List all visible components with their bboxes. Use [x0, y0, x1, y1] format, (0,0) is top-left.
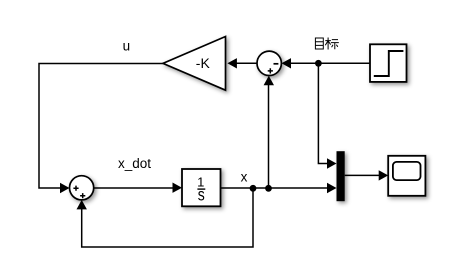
label 目标 (drawn glyphs)	[315, 38, 338, 50]
wire: target down to mux upper input	[318, 63, 328, 163]
node J1 (x branch down)	[250, 185, 257, 192]
gain block -K (triangle, flipped left)	[163, 37, 226, 91]
wire: mux output to scope	[345, 174, 380, 176]
node arrow into lower sum left	[60, 183, 70, 193]
wire: lower sum to integrator	[94, 187, 174, 189]
node J3 (target branch)	[315, 60, 322, 67]
arrow into mux upper input	[327, 158, 337, 168]
wire: x feedback down-left to lower sum bottom	[82, 188, 253, 247]
node J2 (x branch up)	[265, 185, 272, 192]
upper sum block (signs + -)	[257, 51, 281, 75]
svg-text:s: s	[198, 186, 205, 205]
svg-text:-K: -K	[196, 55, 211, 71]
arrow into scope	[379, 170, 389, 180]
scope block	[388, 156, 425, 196]
arrow into gain right edge	[227, 58, 237, 68]
svg-text:u: u	[123, 38, 131, 53]
wire: step output left to upper sum	[290, 62, 370, 64]
step source block	[370, 44, 407, 82]
wire: x up to upper sum	[268, 84, 270, 188]
arrow into mux lower input	[327, 183, 337, 193]
wire: upper sum output left to gain input	[236, 62, 257, 64]
wire: gain output u, left and down to lower sum	[39, 64, 163, 189]
arrow into lower sum bottom	[77, 200, 87, 210]
lower sum block (signs + +)	[70, 176, 94, 200]
svg-text:x_dot: x_dot	[118, 156, 151, 171]
svg-text:x: x	[241, 169, 248, 184]
arrow into upper sum bottom	[264, 76, 274, 86]
wire: integrator output x to mux	[221, 187, 329, 189]
mux block (black bar)	[337, 151, 345, 201]
arrow into upper sum right	[282, 58, 292, 68]
arrow into integrator	[173, 183, 183, 193]
integrator block 1/s	[182, 169, 221, 206]
